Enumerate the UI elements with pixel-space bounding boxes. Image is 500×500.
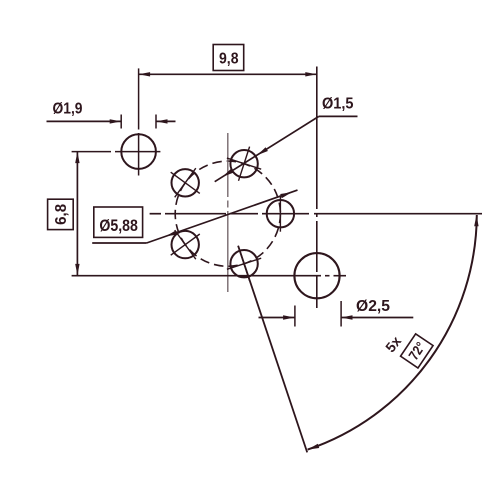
extension line left Ø2,5 bbox=[294, 306, 296, 327]
frame box 6,8 bbox=[48, 199, 74, 229]
horizontal centerline of Ø2.5 hole (ext. of 6,8 dim) bbox=[72, 275, 346, 277]
svg-text:Ø5,88: Ø5,88 bbox=[99, 216, 137, 235]
arrow lower-left of Ø5,88 bbox=[166, 230, 178, 236]
leader line Ø1,5 through top hole bbox=[215, 116, 319, 181]
dimension Ø1,9 leader tails bbox=[47, 120, 122, 122]
leader underline of Ø1,5 bbox=[319, 115, 358, 117]
arrow left of 9,8 bbox=[139, 72, 151, 76]
svg-text:Ø1,5: Ø1,5 bbox=[322, 96, 354, 113]
72° angular dimension arc bbox=[308, 215, 477, 450]
extension line right Ø2,5 bbox=[340, 301, 342, 327]
svg-text:9,8: 9,8 bbox=[219, 50, 239, 67]
arrow top of 6,8 bbox=[75, 152, 79, 164]
arrow left of Ø2,5 bbox=[283, 315, 295, 319]
hole Ø1.9 top-left bbox=[121, 134, 156, 169]
hole Ø2.5 bottom-right bbox=[294, 253, 339, 298]
hole Ø1.5 bottom-left bbox=[171, 230, 200, 259]
vertical centerline of Ø2.5 hole (ext. of 9,8 dim) bbox=[316, 67, 318, 309]
dimension Ø2,5 tails bbox=[259, 317, 295, 319]
svg-text:Ø1,9: Ø1,9 bbox=[53, 101, 83, 118]
arrow top of arc bbox=[474, 215, 478, 227]
hole Ø1.5 right bbox=[262, 196, 298, 232]
hole Ø1.5 top-left bbox=[171, 168, 200, 197]
arrow upper-right of Ø5,88 bbox=[280, 192, 292, 198]
arrow lower-left at top hole bbox=[222, 169, 233, 177]
arrow right of 9,8 bbox=[305, 72, 317, 76]
Ø5,88 diameter line through pattern center bbox=[147, 190, 298, 243]
arrow upper-right at top hole bbox=[257, 147, 268, 155]
dimension 6,8 line bbox=[76, 152, 78, 276]
horizontal centerline of Ø1.9 hole (ext. of 6,8 dim) bbox=[72, 151, 161, 153]
vertical centerline of pattern bbox=[227, 133, 229, 292]
arrow right of Ø1,9 bbox=[156, 119, 168, 123]
horizontal centerline of pattern bbox=[150, 213, 482, 215]
svg-text:6,8: 6,8 bbox=[53, 204, 70, 225]
arrow bottom of 6,8 bbox=[75, 264, 79, 276]
vertical centerline of Ø1.9 hole (ext. of 9,8 dim) bbox=[138, 68, 140, 175]
frame box 9,8 bbox=[213, 45, 244, 71]
leader underline of Ø5,88 box bbox=[92, 242, 146, 244]
arrow bottom of arc bbox=[308, 444, 320, 450]
frame box Ø5,88 bbox=[94, 207, 143, 237]
arrow left of Ø1,9 bbox=[110, 119, 122, 123]
bolt circle Ø5.88 (dashed) bbox=[175, 161, 280, 266]
extension tick right Ø1,9 bbox=[155, 115, 157, 129]
svg-text:Ø2,5: Ø2,5 bbox=[356, 298, 390, 315]
frame box 72° (rotated) bbox=[401, 334, 434, 368]
hole Ø1.5 bottom bbox=[227, 247, 261, 281]
arrow right of Ø2,5 bbox=[341, 315, 353, 319]
svg-text:5x: 5x bbox=[382, 333, 404, 355]
dimension 9,8 line bbox=[139, 73, 317, 75]
extension tick left Ø1,9 bbox=[120, 115, 122, 129]
hole Ø1.5 top bbox=[227, 147, 261, 181]
radial line through bottom hole to arc bbox=[238, 246, 307, 453]
